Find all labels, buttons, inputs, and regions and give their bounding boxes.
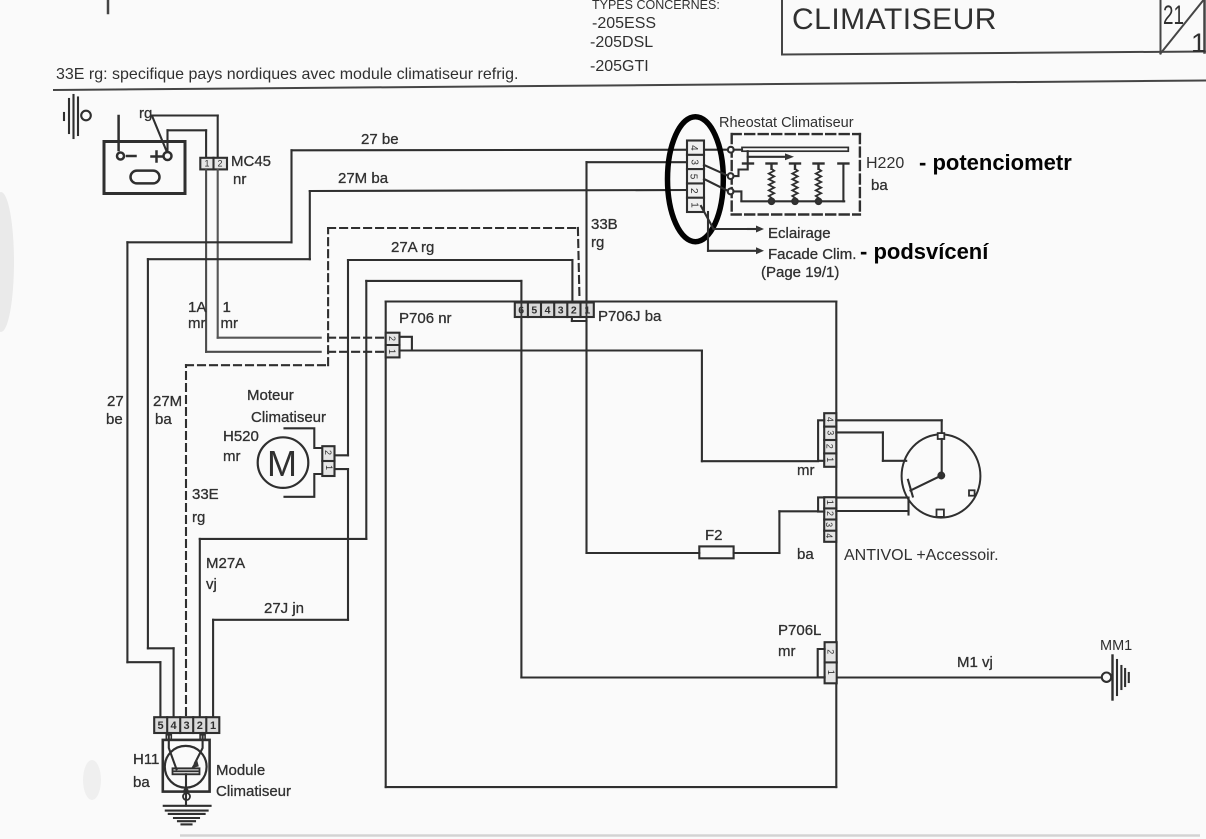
svg-text:4: 4 <box>545 305 551 317</box>
wire 1 mr <box>218 169 321 337</box>
svg-text:4: 4 <box>825 417 835 422</box>
links from terminal circles <box>734 165 748 177</box>
pin labels P706L 2 1, labels P706L mr <box>778 622 836 675</box>
motor connector <box>322 446 334 476</box>
page number box <box>1160 0 1162 54</box>
svg-text:mr: mr <box>797 462 815 479</box>
svg-text:2: 2 <box>218 159 223 169</box>
svg-text:2: 2 <box>825 444 835 449</box>
svg-text:1: 1 <box>205 159 210 169</box>
connector P706L <box>818 642 837 683</box>
svg-text:mr: mr <box>221 315 239 332</box>
wire 33B rg <box>587 162 690 553</box>
connector mr (antivol) <box>818 413 836 467</box>
labels H11 ba, Module Climatiseur <box>133 751 291 800</box>
wire 1A mr <box>206 169 321 351</box>
svg-text:-205DSL: -205DSL <box>590 34 653 51</box>
svg-text:2: 2 <box>825 511 835 516</box>
svg-text:M1 vj: M1 vj <box>957 654 993 671</box>
svg-text:27M ba: 27M ba <box>338 170 389 187</box>
svg-text:P706 nr: P706 nr <box>399 310 452 327</box>
labels wire 27 be <box>106 131 399 428</box>
scan artifacts <box>0 192 1200 837</box>
ground (battery, top-left) <box>64 95 91 138</box>
wire M27A vj <box>200 281 522 717</box>
svg-text:1A: 1A <box>188 299 206 316</box>
svg-text:H520: H520 <box>223 428 259 445</box>
rheostat box <box>704 134 860 214</box>
svg-text:1: 1 <box>324 465 334 470</box>
wire + to MC45 pin1 <box>168 130 207 158</box>
label wire 27A rg <box>391 239 434 256</box>
svg-text:1: 1 <box>825 457 835 462</box>
svg-text:M: M <box>267 443 297 484</box>
svg-text:-205GTI: -205GTI <box>590 58 649 75</box>
svg-text:4: 4 <box>171 720 178 732</box>
svg-text:27A rg: 27A rg <box>391 239 434 256</box>
labels Rheostat Climatiseur, H220 ba <box>719 115 904 194</box>
svg-text:4: 4 <box>688 145 699 151</box>
terminal circles <box>728 147 734 153</box>
contacts <box>743 164 848 169</box>
svg-text:ba: ba <box>155 411 172 428</box>
battery <box>104 116 185 194</box>
label ANTIVOL +Accessoir. <box>844 547 999 564</box>
svg-text:F2: F2 <box>705 527 723 544</box>
svg-text:2: 2 <box>323 450 333 455</box>
svg-text:H11: H11 <box>133 751 159 768</box>
svg-text:1: 1 <box>1191 28 1206 58</box>
svg-text:5: 5 <box>688 174 699 180</box>
svg-text:rg: rg <box>192 509 205 526</box>
svg-text:5: 5 <box>158 720 164 732</box>
wire 27A rg <box>335 260 573 455</box>
connector MC45 <box>200 158 227 170</box>
connector ba (antivol) <box>818 497 836 542</box>
dashed assembly outline <box>186 228 580 715</box>
labels motor H520 mr, Moteur Climatiseur, 33E rg <box>192 387 326 526</box>
svg-text:27: 27 <box>107 393 124 410</box>
svg-text:rg: rg <box>139 105 152 122</box>
wire 27M ba <box>148 190 689 717</box>
label wire M27A vj <box>206 555 245 593</box>
svg-text:27J jn: 27J jn <box>264 600 304 617</box>
svg-text:2: 2 <box>825 649 835 654</box>
svg-text:P706L: P706L <box>778 622 821 639</box>
wire 27 be <box>127 150 728 718</box>
svg-text:P706J ba: P706J ba <box>598 308 662 325</box>
svg-text:Climatiseur: Climatiseur <box>216 783 291 800</box>
big loop rectangle <box>386 302 837 788</box>
ignition switch ANTIVOL <box>902 433 981 517</box>
svg-text:- podsvícení: - podsvícení <box>860 239 989 264</box>
svg-text:1: 1 <box>387 349 397 354</box>
wiper bar <box>734 149 742 151</box>
svg-text:1: 1 <box>210 720 216 732</box>
svg-text:3: 3 <box>184 720 190 732</box>
wire F2 branch <box>572 317 818 554</box>
svg-text:mr: mr <box>778 643 796 660</box>
wire ba to switch <box>836 498 908 515</box>
svg-text:Module: Module <box>216 762 265 779</box>
svg-text:rg: rg <box>591 234 604 251</box>
svg-text:2: 2 <box>688 188 699 194</box>
svg-text:MM1: MM1 <box>1100 638 1132 654</box>
pin labels P706 2 1, labels P706 nr / P706J ba <box>387 308 662 354</box>
circled connector strip (rheostat plug) <box>687 141 704 213</box>
svg-text:2: 2 <box>387 336 397 341</box>
svg-text:ANTIVOL +Accessoir.: ANTIVOL +Accessoir. <box>844 547 999 564</box>
coils <box>769 169 821 199</box>
header underline <box>782 52 1206 55</box>
svg-text:33E: 33E <box>192 486 219 503</box>
svg-text:mr: mr <box>188 315 206 332</box>
svg-text:3: 3 <box>824 522 834 527</box>
svg-text:- potenciometr: - potenciometr <box>919 150 1072 175</box>
svg-text:27M: 27M <box>153 393 182 410</box>
wire crossings through strip <box>521 303 586 318</box>
diagonals from strip <box>704 165 728 176</box>
ground <box>164 805 211 807</box>
wires mr to switch <box>836 420 941 461</box>
header texts <box>56 0 1206 83</box>
label wire 33B rg <box>591 216 618 251</box>
wire rg to + terminal <box>152 116 218 158</box>
svg-text:2: 2 <box>571 305 577 317</box>
wire P706J long <box>412 351 818 462</box>
wire 27J jn <box>213 469 348 717</box>
transistor <box>165 746 207 788</box>
svg-text:vj: vj <box>206 576 217 593</box>
svg-text:H220: H220 <box>866 155 904 172</box>
pin labels connector ba 1 2 3 4 <box>797 500 835 563</box>
svg-text:Climatiseur: Climatiseur <box>251 409 326 426</box>
arrow <box>748 156 786 158</box>
pin labels motor connector 2 1 <box>323 450 334 470</box>
motor H520 <box>258 428 323 497</box>
svg-text:33E rg: specifique pays nordiq: 33E rg: specifique pays nordiques avec m… <box>56 66 518 83</box>
fuse F2 <box>699 546 733 558</box>
label fuse F2 <box>705 527 723 544</box>
svg-text:mr: mr <box>223 448 241 465</box>
border tick top-left <box>107 0 110 13</box>
czech annotations <box>860 150 1072 264</box>
labels wire 27M ba <box>153 170 389 428</box>
svg-text:1: 1 <box>223 299 231 316</box>
connector strip 54321 <box>154 717 219 733</box>
pin labels connector mr 4 3 2 1 <box>797 417 835 479</box>
wire M1 vj <box>521 676 1101 678</box>
connector strip 654321 <box>515 303 594 318</box>
svg-text:1: 1 <box>688 202 699 208</box>
svg-text:ba: ba <box>133 774 150 791</box>
svg-text:33B: 33B <box>591 216 618 233</box>
svg-text:1: 1 <box>825 500 835 505</box>
svg-text:5: 5 <box>531 305 537 317</box>
svg-text:CLIMATISEUR: CLIMATISEUR <box>792 3 997 36</box>
annotation ellipse <box>668 117 724 242</box>
pin labels strip 6 5 4 3 2 1 <box>518 305 590 317</box>
pin labels strip 5 4 3 2 1 <box>158 720 217 732</box>
svg-text:3: 3 <box>558 305 564 317</box>
svg-text:(Page 19/1): (Page 19/1) <box>761 264 839 281</box>
header block <box>54 0 1206 90</box>
eclairage arrows <box>701 206 764 254</box>
svg-text:M27A: M27A <box>206 555 245 572</box>
svg-text:Moteur: Moteur <box>247 387 294 404</box>
labels 1A mr / 1 mr <box>188 299 238 332</box>
svg-text:Eclairage: Eclairage <box>768 225 831 242</box>
labels Eclairage / Facade Clim. / (Page 19/1) <box>761 225 856 281</box>
svg-text:21: 21 <box>1163 0 1184 30</box>
svg-text:Facade Clim.: Facade Clim. <box>768 246 856 263</box>
ground MM1 <box>1102 656 1129 700</box>
label wire 27J jn <box>264 600 304 617</box>
svg-text:1: 1 <box>826 670 836 675</box>
full width rule <box>54 81 1206 91</box>
svg-text:-205ESS: -205ESS <box>592 15 656 32</box>
label ground MM1 <box>1100 638 1132 654</box>
svg-text:27 be: 27 be <box>361 131 399 148</box>
label wire M1 vj <box>957 654 993 671</box>
svg-text:3: 3 <box>688 159 699 165</box>
svg-text:nr: nr <box>233 171 246 188</box>
svg-text:2: 2 <box>197 720 203 732</box>
svg-text:TYPES CONCERNES:: TYPES CONCERNES: <box>592 0 720 12</box>
svg-text:Rheostat Climatiseur: Rheostat Climatiseur <box>719 115 854 131</box>
svg-text:ba: ba <box>797 546 814 563</box>
pin labels rheostat plug 4 3 5 2 1 <box>688 145 700 208</box>
header divider vertical <box>781 0 783 55</box>
svg-text:4: 4 <box>824 533 834 538</box>
svg-text:be: be <box>106 411 123 428</box>
svg-text:ba: ba <box>871 177 888 194</box>
bottom bus <box>741 200 844 202</box>
connector P706 <box>386 333 412 358</box>
module climatiseur H11 <box>163 733 211 824</box>
svg-text:MC45: MC45 <box>231 153 271 170</box>
svg-text:3: 3 <box>825 430 835 435</box>
pin labels MC45 1 2 and label MC45 nr, label rg <box>139 105 271 188</box>
